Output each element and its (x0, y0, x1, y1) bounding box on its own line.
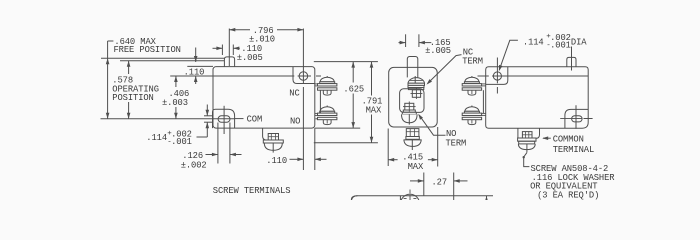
svg-text:COMMON: COMMON (553, 134, 584, 144)
svg-text:±.005: ±.005 (425, 46, 451, 56)
svg-text:.001: .001 (171, 137, 192, 147)
svg-text:COM: COM (247, 114, 263, 124)
svg-text:TERM: TERM (462, 56, 483, 66)
svg-text:.110: .110 (184, 68, 205, 78)
svg-text:MAX: MAX (366, 106, 382, 116)
svg-text:±.002: ±.002 (181, 160, 207, 170)
svg-text:SCREW TERMINALS: SCREW TERMINALS (213, 186, 291, 196)
svg-text:(3 EA REQ'D): (3 EA REQ'D) (537, 190, 599, 200)
svg-text:.114: .114 (523, 37, 544, 47)
svg-text:.415: .415 (402, 152, 423, 162)
svg-text:DIA: DIA (571, 37, 587, 47)
svg-text:NC: NC (289, 89, 299, 99)
svg-text:.110: .110 (266, 156, 287, 166)
svg-text:MAX: MAX (408, 162, 424, 172)
svg-text:NO: NO (290, 116, 300, 126)
svg-text:TERM: TERM (446, 138, 467, 148)
svg-text:POSITION: POSITION (112, 93, 153, 103)
svg-text:±.005: ±.005 (237, 53, 263, 63)
svg-text:.114: .114 (146, 133, 167, 143)
svg-text:.27: .27 (432, 178, 448, 188)
svg-text:.625: .625 (343, 84, 364, 94)
svg-text:FREE POSITION: FREE POSITION (114, 45, 181, 55)
svg-text:.001: .001 (550, 41, 571, 51)
svg-text:±.003: ±.003 (162, 98, 188, 108)
svg-text:±.010: ±.010 (249, 34, 275, 44)
svg-text:TERMINAL: TERMINAL (553, 145, 594, 155)
